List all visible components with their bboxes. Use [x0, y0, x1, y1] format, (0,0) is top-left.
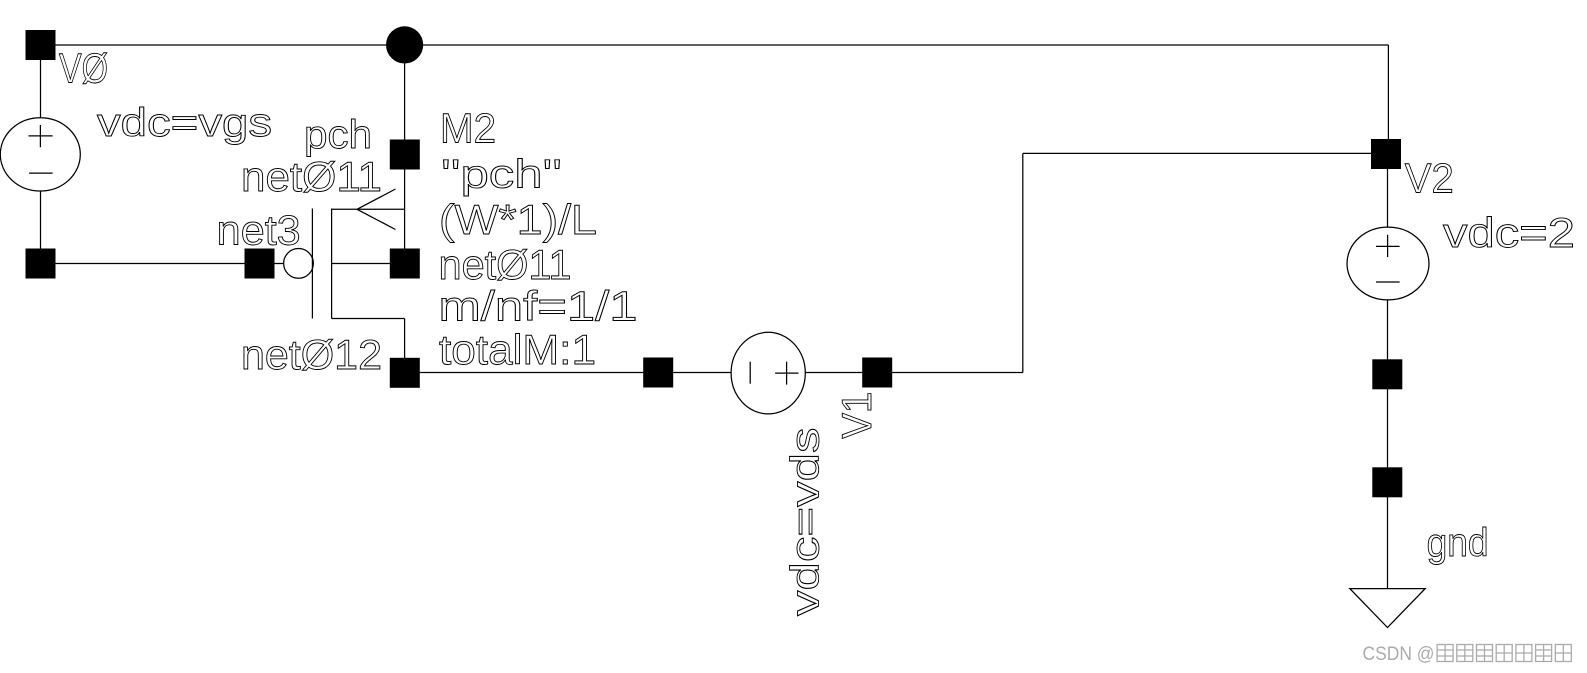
svg-text:CSDN @: CSDN @ — [1363, 643, 1435, 665]
svg-text:V1: V1 — [833, 392, 880, 439]
svg-text:VØ: VØ — [59, 45, 108, 92]
svg-text:netØ11: netØ11 — [241, 153, 382, 200]
svg-text:net3: net3 — [217, 207, 301, 254]
svg-text:vdc=vgs: vdc=vgs — [97, 101, 272, 145]
svg-text:netØ12: netØ12 — [241, 331, 382, 378]
svg-text:M2: M2 — [440, 105, 496, 152]
svg-text:V2: V2 — [1405, 155, 1454, 202]
svg-text:vdc=vds: vdc=vds — [784, 428, 828, 617]
svg-text:pch: pch — [304, 113, 372, 157]
svg-text:m/nf=1/1: m/nf=1/1 — [439, 283, 638, 330]
svg-text:gnd: gnd — [1427, 521, 1489, 565]
svg-text:(W*1)/L: (W*1)/L — [439, 196, 597, 243]
svg-text:vdc=2: vdc=2 — [1443, 209, 1575, 256]
svg-text:netØ11: netØ11 — [439, 241, 572, 288]
svg-text:''pch'': ''pch'' — [441, 152, 562, 196]
svg-text:totalM:1: totalM:1 — [439, 326, 596, 373]
